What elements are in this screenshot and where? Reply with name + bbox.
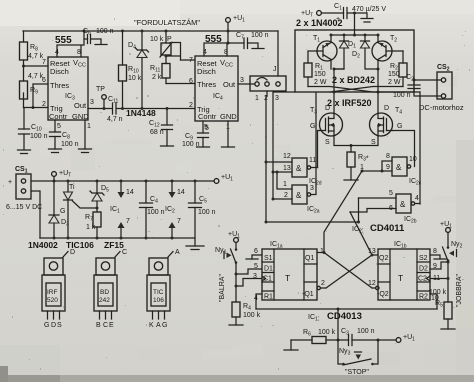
svg-text:3: 3 [310,185,314,192]
resistor R2 [388,51,407,87]
wire IC4 pin5 to C9 [202,121,204,133]
wire +UT drop to bridge [354,13,356,35]
wire T4 source to node [377,136,379,146]
connector J [250,66,286,102]
svg-text:2 x IRF520: 2 x IRF520 [327,98,372,108]
connector CS1 [8,166,31,199]
svg-text:3: 3 [275,95,279,102]
resistor R9 [20,66,44,108]
svg-text:2 x BD242: 2 x BD242 [332,75,375,85]
svg-text:100 n: 100 n [357,328,375,335]
resistor R8 [20,31,44,66]
wire T2 emitter/collector [377,35,379,69]
wire T1 base to R1 [308,51,317,63]
svg-text:Contr: Contr [49,112,68,121]
wire bridge drive net down to gates [273,92,295,199]
pushbutton NY3 STOP [338,340,378,365]
resistor R11 [150,63,170,84]
pushbutton NY1 BALRA [215,242,237,302]
IC1 supply arrow pin7 [118,218,131,240]
svg-text:10: 10 [409,156,417,163]
svg-text:CD4011: CD4011 [370,223,405,234]
resistor R1 [304,63,327,87]
ground C1 [361,19,373,23]
diode D5 zener ZF15 [90,180,109,213]
ground C7 [252,48,264,50]
svg-text:T: T [285,273,290,283]
ground under C10 [18,150,31,154]
wire S1 to gnd step [252,255,262,259]
svg-text:Thres: Thres [50,81,69,90]
nand IC2a [283,181,320,215]
wire T3 gate down to IC2d out [318,131,320,168]
svg-text:4,7 n: 4,7 n [107,116,123,123]
svg-text:E: E [109,322,114,329]
wire PWM line [266,198,359,222]
capacitor C1 electrolytic 470u [321,3,386,23]
svg-text:D: D [325,105,330,112]
wire R2 to reset line [430,294,437,309]
svg-text:D: D [70,249,75,256]
diode D4 zener [128,30,149,111]
wire emitter rail inside [331,34,378,36]
flipflop IC1b box [377,241,430,301]
svg-text:"STOP": "STOP" [345,369,369,376]
wire diag Q2 to IC2b pin6 [350,212,372,255]
clock wedge C1 [262,276,266,281]
wire collector verticals through frame [334,69,378,113]
svg-text:Disch: Disch [50,67,69,76]
svg-text:S: S [371,139,376,146]
svg-text:100 n: 100 n [61,141,79,148]
capacitor C12 [149,107,173,146]
svg-text:&: & [296,164,302,173]
svg-text:7: 7 [126,218,130,225]
svg-text:8: 8 [433,248,437,255]
svg-text:B: B [96,322,101,329]
wire IC2c pins [362,161,392,171]
wire -Q1 out with bubble [317,286,326,289]
svg-text:&: & [396,163,402,172]
svg-text:2: 2 [321,280,325,287]
wire C1 to NY1 node [236,279,262,287]
svg-text:"JOBBRA": "JOBBRA" [456,274,463,307]
svg-text:C: C [122,249,127,256]
svg-text:7: 7 [177,218,181,225]
svg-text:7: 7 [189,57,193,64]
package BD242 [94,249,127,329]
svg-text:2: 2 [189,102,193,109]
potentiometer P 10k [150,30,181,64]
svg-text:100 n: 100 n [30,133,48,140]
svg-text:242: 242 [99,297,110,304]
wire IC4 top bracket [204,43,228,56]
wire out line IC3 pin3 to IC4 pin2 [88,108,195,110]
svg-text:Out: Out [74,101,87,110]
svg-text:Q1: Q1 [305,255,314,262]
wire pin6 jog [33,84,48,108]
svg-text:-Q2: -Q2 [377,291,389,298]
capacitor C10 [19,108,48,151]
wire IC3 top bracket pins 4,8 [57,31,84,57]
svg-text:100 n: 100 n [198,209,216,216]
resistor R4 [232,302,261,325]
svg-text:1N4002: 1N4002 [28,240,58,250]
svg-text:2 x 1N4002: 2 x 1N4002 [296,18,343,28]
wire J pin2 down [266,91,267,222]
package TIC106 [147,249,180,329]
svg-text:470 µ/25 V: 470 µ/25 V [352,6,386,13]
capacitor C4 [140,180,165,240]
svg-text:100 k: 100 k [243,312,261,319]
svg-text:+: + [8,179,12,186]
terminal +U1 for NY1 [228,231,240,242]
svg-text:12: 12 [368,280,376,287]
svg-text:S1: S1 [264,255,273,262]
ground R3 [344,179,358,181]
clock wedge C2 [427,276,431,281]
resistor R5 [429,289,452,329]
capacitor C3 [337,328,380,346]
transistor T4 IRF520 [370,105,403,146]
svg-text:S: S [57,322,62,329]
op 555 IC3 box [48,57,89,121]
capacitor C9 [182,125,209,148]
terminal +UT top [301,10,321,19]
svg-text:C2: C2 [418,276,427,283]
svg-text:2 k: 2 k [152,74,162,81]
diode D1 [334,34,356,70]
svg-text:TIC: TIC [153,289,164,296]
test point TP [96,86,106,110]
svg-text:1: 1 [87,123,91,130]
ground C6 [95,44,107,46]
svg-text:A: A [175,249,180,256]
svg-text:10 k: 10 k [128,75,142,82]
wire IC2b pins [350,198,420,212]
wire Q1 out [317,252,324,254]
wire IC2b output rise [419,92,421,204]
svg-text:DC-motorhoz: DC-motorhoz [419,103,464,112]
wire pin7 line [24,65,49,67]
op 555 IC4 box [195,56,238,121]
wire crossover base drive [308,87,420,93]
ground pin1 IC4 [222,146,235,148]
svg-text:R2: R2 [419,294,428,301]
svg-text:100 n: 100 n [251,32,269,39]
ground C5 [186,246,204,250]
svg-text:D: D [384,105,389,112]
wire R1 to reset line [256,294,262,309]
wire IC4 pin1 gnd [227,121,229,147]
svg-text:5: 5 [389,190,393,197]
svg-text:6...15 V DC: 6...15 V DC [6,204,42,211]
svg-text:G: G [397,123,402,130]
frame around BD242 stage [295,30,414,92]
terminal +U1 for NY2 [440,221,452,232]
resistor R6 [291,329,338,344]
resistor R10 [119,30,142,111]
wire IC4 out to J [238,83,255,85]
svg-text:12: 12 [283,153,291,160]
svg-text:1: 1 [255,95,259,102]
wire disch IC4 to pot [181,59,196,61]
resistor R7 [85,212,101,240]
svg-text:150: 150 [388,71,400,78]
svg-text:"BALRA": "BALRA" [219,274,226,302]
svg-text:6: 6 [189,78,193,85]
capacitor C7 [228,32,269,49]
svg-text:1: 1 [283,181,287,188]
IC2 supply arrow pin7 [169,218,182,240]
svg-text:Disch: Disch [197,67,216,76]
wire reset drop to C3 node [337,309,339,340]
svg-text:&: & [400,200,406,209]
svg-text:1 k: 1 k [86,224,96,231]
transistor T2 BD242 pnp [372,35,403,61]
svg-text:100 k: 100 k [318,329,336,336]
capacitor C5 [189,180,216,247]
thyristor Ti [60,180,97,240]
nand IC2d [283,153,322,187]
svg-text:TP: TP [96,86,105,93]
svg-text:GND: GND [220,112,237,121]
svg-text:D1: D1 [264,266,273,273]
svg-text:2 W: 2 W [314,79,327,86]
svg-text:5: 5 [205,125,209,132]
connector CS2 [437,64,452,99]
terminal +U1 bottom [396,334,415,343]
svg-text:G: G [60,208,65,215]
transistor T1 BD242 pnp [313,35,337,61]
IC1 supply arrow pin14 [110,180,134,215]
svg-text:A: A [156,322,161,329]
svg-text:9: 9 [386,164,390,171]
wire T3 source to node [334,136,377,146]
svg-text:J: J [273,66,277,73]
svg-text:6: 6 [254,248,258,255]
svg-text:106: 106 [153,297,164,304]
wire C2 to NY2 node [430,278,448,280]
svg-text:150: 150 [314,71,326,78]
svg-text:2: 2 [284,192,288,199]
transistor T3 IRF520 [310,105,343,146]
wire IC2d pins [266,162,318,172]
svg-text:2: 2 [42,101,46,108]
svg-text:S2: S2 [419,255,428,262]
svg-text:C: C [103,322,108,329]
ground C12 [161,145,174,147]
wire D1 to NY1 node [236,269,262,274]
svg-text:68 n: 68 n [150,129,164,136]
svg-text:Contr: Contr [198,112,217,121]
svg-text:7: 7 [42,59,46,66]
svg-text:100 n: 100 n [393,92,411,99]
svg-text:Ti: Ti [69,184,75,191]
terminal +U1 top [226,15,246,24]
svg-text:GND: GND [72,112,89,121]
flipflop IC1a box [262,241,317,301]
svg-text:Out: Out [223,80,236,89]
package IRF520 [42,249,75,329]
wire +U1 drop top [227,23,229,44]
wire trig line [24,107,49,109]
wire T1 emitter/collector [330,35,332,69]
nand IC2c [386,153,422,187]
svg-text:3: 3 [90,99,94,106]
svg-text:D2: D2 [419,266,428,273]
svg-text:14: 14 [126,189,134,196]
ground C8 [49,149,62,153]
wire T4 gate to IC2c out [393,131,415,167]
svg-text:&: & [296,191,302,200]
svg-text:"FORDULATSZÁM": "FORDULATSZÁM" [134,18,200,27]
ground R6 [284,340,298,350]
capacitor C6 [83,28,114,44]
svg-text:G: G [310,123,315,130]
wire pin5 to C8 [54,120,56,132]
wire gap cross X [324,253,372,289]
wire +UT rail [31,180,214,182]
svg-text:13: 13 [283,165,291,172]
wire motor terminal to CS2 [414,79,441,81]
svg-text:3: 3 [240,77,244,84]
wire CS1 lower to return [31,191,40,238]
svg-text:4: 4 [415,195,419,202]
wire return line [40,237,195,239]
wire reset line [256,308,437,310]
ground R4 [229,324,243,326]
wire pin1 gnd [84,120,86,149]
ground pin1 IC3 [79,149,92,153]
svg-text:1N4148: 1N4148 [126,108,156,118]
svg-text:Q2: Q2 [379,255,388,262]
svg-text:K: K [149,322,154,329]
capacitor C8 [50,132,79,149]
terminal +U1 mid [214,174,233,183]
resistor R3 [347,146,369,181]
svg-text:T: T [398,273,403,283]
svg-text:-Q1: -Q1 [302,291,314,298]
svg-text:100 n: 100 n [96,28,114,35]
svg-text:520: 520 [47,297,58,304]
svg-text:D: D [51,322,56,329]
wire: top rail FORDULATSZAM [23,30,278,32]
wire to +U1 terminal bottom [378,339,396,341]
svg-text:14: 14 [177,189,185,196]
pushbutton NY2 JOBBRA [443,232,463,302]
svg-text:G: G [44,322,49,329]
ground C9 [197,146,210,148]
nand IC2b [389,190,419,225]
svg-text:100 k: 100 k [429,289,447,296]
svg-text:IRF: IRF [47,289,58,296]
wire IC2a pins [273,93,316,199]
svg-text:2 W: 2 W [388,79,401,86]
svg-text:CD4013: CD4013 [327,311,362,322]
diode D2 [352,34,378,70]
wire -Q2 out with bubble [372,286,379,289]
svg-text:R1: R1 [264,294,273,301]
IC2 supply arrow pin14 [165,180,185,215]
svg-text:555: 555 [55,35,72,46]
diode D3 [49,181,69,240]
svg-text:S: S [325,139,330,146]
wire S2 to gnd step [430,255,440,259]
svg-text:P: P [167,36,172,43]
svg-text:100 n: 100 n [147,209,165,216]
wire Q2 out [372,254,378,256]
wire rail corner to J pin3 [277,31,279,76]
capacitor C11 series [107,96,123,123]
svg-text:11: 11 [309,157,316,164]
svg-text:10 k: 10 k [150,36,164,43]
wire D2 to NY2 node [430,262,448,269]
terminal +UT [52,170,72,183]
svg-text:6: 6 [42,77,46,84]
svg-text:Thres: Thres [197,80,216,89]
capacitor C2 [393,74,441,99]
ground R5 [441,328,455,330]
wire diag Q1 to IC2c pin9 [324,171,362,253]
svg-text:5: 5 [57,123,61,130]
svg-text:8: 8 [386,153,390,160]
svg-text:BD: BD [100,289,109,296]
wire thres line IC4 [166,83,195,85]
svg-text:G: G [162,322,167,329]
